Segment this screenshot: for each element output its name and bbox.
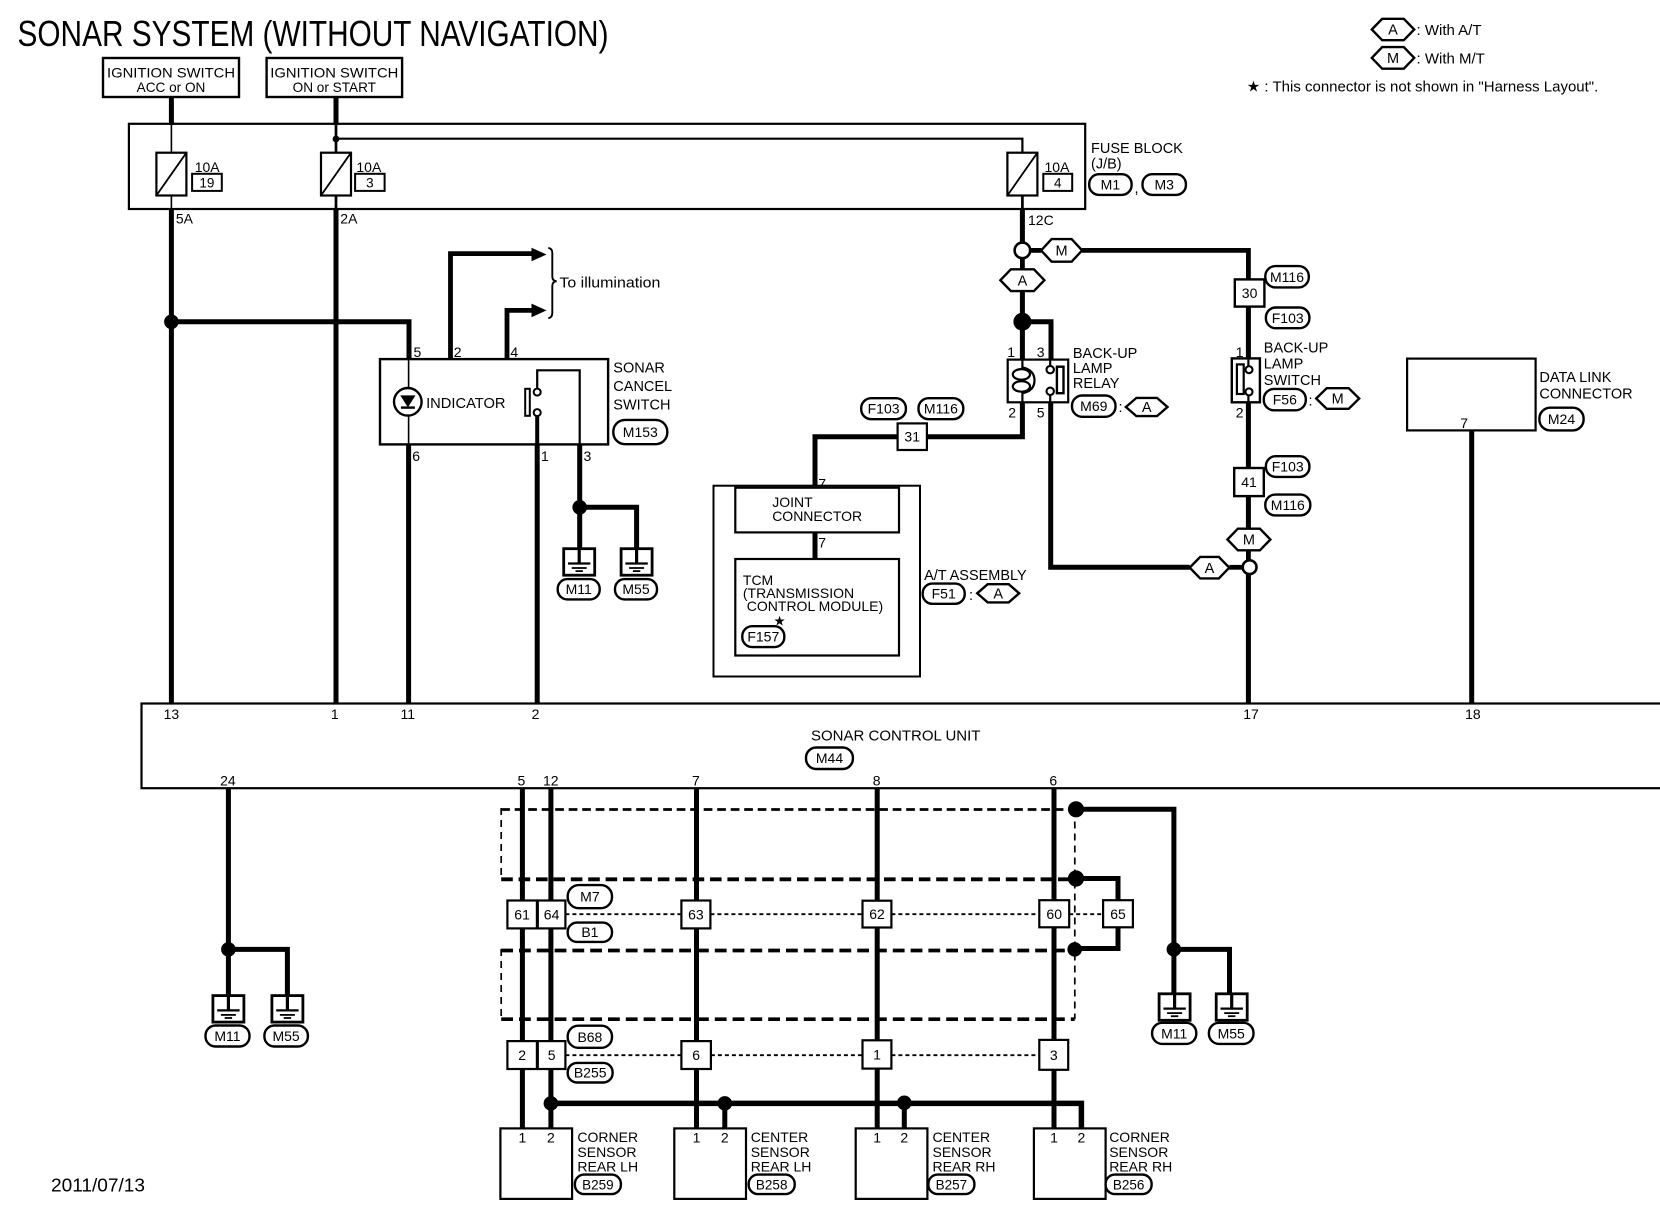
cancel switch contact upper circle [534, 389, 541, 396]
ground connector M55 (bottom right) [1209, 1023, 1254, 1044]
relay contact lower circle [1047, 388, 1054, 395]
connector M3 [1143, 174, 1186, 195]
svg-text:DATA LINK: DATA LINK [1539, 370, 1611, 386]
back-up lamp switch name [1264, 341, 1328, 390]
connector M69 [1072, 396, 1116, 417]
svg-text:A: A [993, 587, 1003, 603]
svg-text:SENSOR: SENSOR [933, 1144, 992, 1160]
wire fuse3 lower lead [1021, 196, 1024, 210]
fuse block name label [1091, 141, 1183, 173]
svg-text:6: 6 [412, 448, 420, 464]
corner sensor rear LH name [577, 1129, 638, 1174]
svg-text:3: 3 [1050, 1047, 1058, 1063]
fuse1 number box 19 [192, 174, 222, 191]
joint connector box [735, 488, 899, 533]
svg-text:5A: 5A [176, 211, 194, 227]
svg-text:SONAR CONTROL UNIT: SONAR CONTROL UNIT [811, 728, 980, 745]
tag M on back-up lamp column [1227, 529, 1270, 551]
svg-text:12: 12 [543, 773, 559, 789]
shield box2 top dashed line [501, 949, 1074, 953]
svg-text:FUSE BLOCK: FUSE BLOCK [1091, 141, 1183, 157]
junction on 5A feed [164, 315, 179, 330]
connector B1 [568, 923, 612, 942]
svg-text:10A: 10A [356, 159, 382, 175]
pair link 5-6 [565, 1054, 681, 1056]
svg-text:A: A [1018, 273, 1028, 289]
back-up lamp switch box F56 [1232, 358, 1260, 402]
svg-text:M: M [1243, 533, 1255, 549]
svg-text:CONNECTOR: CONNECTOR [1539, 387, 1632, 403]
svg-text:A: A [1205, 561, 1215, 577]
connector M116 (near 31) [919, 398, 964, 419]
svg-text:2: 2 [518, 1047, 526, 1063]
svg-text:7: 7 [692, 773, 700, 789]
shield box1 bottom dashed line [501, 877, 1076, 881]
svg-text:5: 5 [1037, 405, 1045, 421]
wire 41 to M hexagon [1246, 496, 1251, 529]
wire sensor ground bus [551, 1103, 1082, 1128]
svg-text:B255: B255 [574, 1065, 607, 1081]
svg-text:M44: M44 [816, 750, 843, 766]
corner sensor rear LH box B259 [500, 1128, 572, 1199]
back-up lamp switch internal upper lead [1247, 358, 1249, 366]
wire bus drop center sensor LH pin2 [722, 1103, 727, 1128]
svg-text:M3: M3 [1154, 177, 1174, 193]
connector F56 [1264, 389, 1306, 410]
ground connector M11 (bottom left) [206, 1026, 250, 1047]
svg-text:B256: B256 [1113, 1177, 1145, 1192]
svg-text:(J/B): (J/B) [1091, 157, 1122, 173]
fuse 10A #3 [321, 153, 351, 196]
connector box 62 [863, 901, 892, 928]
brace to illumination [548, 248, 556, 318]
wire shield top to ground branch [1076, 809, 1174, 994]
fuse 10A #4 [1007, 153, 1037, 196]
svg-text:CORNER: CORNER [1109, 1129, 1170, 1145]
svg-text:SENSOR: SENSOR [577, 1144, 636, 1160]
fuse block (J/B) outline [129, 124, 1085, 209]
svg-text::: : [969, 588, 973, 604]
ignition switch ON or START box [267, 58, 403, 97]
svg-text:★ : This connector is not show: ★ : This connector is not shown in "Harn… [1247, 79, 1599, 96]
back-up lamp switch internal lower lead [1247, 396, 1249, 403]
connector M116 (above 30) [1265, 266, 1309, 287]
corner sensor rear RH name [1109, 1129, 1172, 1174]
connector box 2 [507, 1041, 537, 1069]
wire A hexagon to relay pin1 [1020, 291, 1025, 360]
relay contact lower lead [1049, 395, 1051, 402]
tag A (with A/T) on 12C [1000, 269, 1044, 291]
connector box 6 [681, 1041, 711, 1069]
ground M55 (mid) [621, 549, 652, 576]
ground M55 (bottom right) [1216, 994, 1247, 1021]
back-up lamp relay name [1073, 346, 1137, 392]
relay coil lead internal [1021, 360, 1023, 368]
svg-text:A/T ASSEMBLY: A/T ASSEMBLY [924, 568, 1027, 584]
legend symbol M (With M/T) [1372, 47, 1414, 69]
wire branch to M55 ground (bottom right) [1174, 949, 1230, 993]
svg-text:B259: B259 [582, 1177, 614, 1192]
svg-text:M: M [1056, 244, 1068, 260]
ground connector M11 (mid) [558, 579, 600, 599]
svg-text:M24: M24 [1548, 411, 1575, 427]
svg-text:M11: M11 [1161, 1025, 1187, 1041]
svg-text::: : [1119, 400, 1123, 416]
svg-text:10A: 10A [1045, 159, 1071, 175]
relay coil loop lower [1013, 381, 1030, 392]
svg-text:3: 3 [1037, 344, 1045, 360]
shield junction dot bottom [1067, 942, 1082, 957]
svg-text:13: 13 [164, 706, 180, 722]
wire branch to relay pin3 [1022, 322, 1051, 360]
center sensor rear LH box B258 [674, 1128, 746, 1199]
wire 5A feed to sonar control unit pin13 [169, 209, 174, 704]
svg-text:M: M [1387, 51, 1399, 67]
svg-text:19: 19 [199, 175, 214, 190]
svg-text:SENSOR: SENSOR [1109, 1144, 1168, 1160]
wire relay pin5 to A/T assembly [1051, 402, 1190, 567]
svg-text:4: 4 [1054, 175, 1062, 190]
svg-text:1: 1 [541, 448, 549, 464]
svg-text:CENTER: CENTER [751, 1129, 809, 1145]
tag A for relay [1126, 398, 1168, 416]
svg-text:M55: M55 [622, 581, 649, 597]
shield box2 bottom dashed line [501, 1017, 1074, 1021]
svg-text:F56: F56 [1273, 392, 1297, 408]
shield junction dot middle [1068, 870, 1084, 886]
junction fuse2 feed [333, 136, 340, 143]
connector box 3 [1039, 1040, 1068, 1070]
wire fuse1 lower lead [170, 196, 172, 210]
ground M11 (mid) [564, 549, 595, 576]
connector M153 [613, 420, 667, 444]
svg-text:B68: B68 [577, 1029, 602, 1045]
ground M55 (bottom left) [272, 996, 303, 1023]
wire 31 to joint connector [815, 437, 898, 486]
svg-text:M55: M55 [1218, 1025, 1245, 1041]
wire relay pin2 down [927, 402, 1023, 436]
junction relay coil/contact feed [1013, 313, 1031, 331]
svg-text:61: 61 [514, 907, 530, 923]
back-up lamp switch upper circle [1246, 366, 1253, 373]
svg-text:CANCEL: CANCEL [613, 379, 672, 395]
pair link 63-62 [710, 913, 862, 915]
fuse2 number box 3 [355, 174, 385, 191]
svg-text:: With M/T: : With M/T [1417, 50, 1485, 67]
svg-text:1: 1 [1050, 1130, 1058, 1146]
sonar control unit box M44 [142, 704, 1660, 789]
wire branch to cancel switch pin5 [171, 322, 409, 359]
wire indicator lead lower [408, 415, 410, 444]
svg-text:ON or START: ON or START [293, 80, 376, 95]
svg-text:41: 41 [1241, 474, 1257, 490]
wire 12C down to junction circle [1020, 209, 1025, 243]
svg-text:1: 1 [519, 1130, 527, 1146]
svg-text:5: 5 [518, 773, 526, 789]
svg-text:To illumination: To illumination [559, 274, 660, 291]
connector box 60 [1039, 900, 1069, 927]
svg-text:7: 7 [818, 535, 826, 551]
connector B68 [568, 1026, 612, 1048]
svg-text:65: 65 [1110, 906, 1126, 922]
A/T assembly outer box [714, 486, 921, 677]
svg-text:62: 62 [869, 906, 885, 922]
shield junction dot top [1068, 801, 1084, 817]
TCM name [743, 572, 883, 614]
wire fuse1 upper lead [170, 124, 172, 153]
wire indicator lead upper [408, 359, 410, 389]
svg-text:M69: M69 [1080, 398, 1107, 414]
node back-up/A-T junction circle [1243, 560, 1257, 574]
wire control unit pin12 down [548, 788, 553, 1128]
data link connector box M24 [1407, 359, 1536, 431]
tag A on A/T assembly line [1190, 557, 1230, 579]
svg-text:63: 63 [688, 907, 704, 923]
svg-text:M11: M11 [214, 1028, 240, 1044]
svg-text:2: 2 [1078, 1130, 1086, 1146]
corner sensor rear RH box B256 [1034, 1128, 1106, 1199]
connector box 61 [507, 901, 537, 929]
arrowhead lower to illumination [532, 304, 547, 318]
wire contact upper to pin3 internal [537, 370, 580, 444]
connector B256 [1106, 1175, 1152, 1195]
wire shield middle to connector 65 [1076, 879, 1118, 901]
wire ignition ACC to fuse block [169, 97, 174, 125]
TCM box [735, 559, 899, 656]
back-up lamp switch bar [1237, 364, 1244, 394]
wire control unit pin24 down [226, 788, 231, 995]
svg-text:CONNECTOR: CONNECTOR [772, 508, 862, 524]
sonar cancel switch name [613, 361, 672, 414]
svg-text:2: 2 [1008, 405, 1016, 421]
connector F103 (below 30) [1266, 308, 1310, 329]
ground connector M55 (bottom left) [264, 1026, 308, 1047]
svg-text:B258: B258 [756, 1177, 788, 1192]
tag M for back-up lamp switch [1316, 388, 1359, 409]
connector box 31 [898, 423, 927, 450]
wire M branch to back-up lamp switch column [1082, 250, 1248, 279]
svg-text:1: 1 [331, 706, 339, 722]
svg-text:,: , [1135, 181, 1139, 197]
svg-text:SWITCH: SWITCH [613, 398, 670, 414]
center sensor rear RH box B257 [856, 1128, 928, 1199]
svg-text:30: 30 [1242, 285, 1258, 301]
shield box1 top dashed line [501, 808, 1076, 811]
wire cancel switch pin2 to illumination [451, 254, 534, 360]
svg-text:7: 7 [1460, 415, 1468, 431]
svg-text:M116: M116 [1271, 497, 1305, 513]
wire connector 65 to shield bottom [1075, 927, 1118, 948]
pair link 60-65 [1069, 913, 1103, 915]
wire control unit pin7 to center sensor LH pin1 [694, 788, 699, 1128]
relay coil arc [1022, 368, 1034, 394]
svg-text:31: 31 [904, 429, 920, 445]
relay contact upper circle [1047, 366, 1054, 373]
svg-text:10A: 10A [195, 159, 221, 175]
svg-text:ACC or ON: ACC or ON [137, 80, 206, 95]
back-up lamp relay box M69 [1008, 360, 1068, 403]
svg-text:RELAY: RELAY [1073, 376, 1120, 392]
indicator LED triangle [400, 395, 415, 407]
wire cancel switch pin1 to control unit pin2 [535, 444, 540, 703]
svg-text:12C: 12C [1028, 212, 1054, 228]
svg-text:7: 7 [818, 476, 826, 492]
relay coil lead lower internal [1021, 392, 1023, 403]
connector F103 (above 41) [1266, 456, 1310, 477]
pair link 64-63 [565, 913, 681, 915]
wire contact lower to pin1 internal [535, 416, 539, 444]
svg-text:IGNITION SWITCH: IGNITION SWITCH [107, 66, 235, 81]
indicator LED circle [394, 388, 422, 416]
svg-text:F103: F103 [868, 401, 900, 417]
wire control unit pin5 to corner sensor LH pin1 [520, 788, 525, 1128]
wire control unit pin8 to center sensor RH pin1 [875, 788, 880, 1128]
svg-text:M: M [1332, 392, 1344, 408]
svg-text:24: 24 [220, 773, 236, 789]
sonar cancel switch box M153 [380, 359, 608, 444]
svg-text:F103: F103 [1272, 459, 1304, 475]
center sensor rear LH name [751, 1129, 812, 1174]
ground M11 (bottom left) [213, 996, 244, 1023]
connector box 63 [681, 901, 710, 929]
svg-text:SENSOR: SENSOR [751, 1144, 810, 1160]
svg-text:2: 2 [454, 344, 462, 360]
wire back-up lamp switch pin2 to 41 [1246, 402, 1251, 468]
tag A for A/T assembly [977, 584, 1019, 602]
connector M7 [568, 885, 612, 908]
wire fuse2 upper lead [335, 124, 338, 153]
fuse3 number box 4 [1043, 174, 1072, 191]
svg-text:2A: 2A [340, 211, 358, 227]
connector F157 [742, 626, 784, 647]
svg-text:2: 2 [900, 1130, 908, 1146]
junction bus to center sensor LH pin2 [718, 1096, 733, 1111]
connector box 1 [863, 1040, 892, 1068]
tag M (with M/T) on 12C [1041, 239, 1082, 262]
svg-text:3: 3 [366, 175, 374, 190]
svg-text:A: A [1388, 23, 1398, 39]
ground connector M11 (bottom right) [1152, 1023, 1196, 1044]
wire fuse2 lower lead [335, 196, 338, 210]
pair link 6-1 [711, 1054, 863, 1056]
svg-text:M1: M1 [1101, 177, 1121, 193]
connector F103 (near 31) [861, 398, 906, 419]
connector box 41 [1234, 468, 1264, 496]
wire circle to A hexagon [1020, 258, 1025, 269]
svg-text:REAR RH: REAR RH [933, 1158, 996, 1174]
wire control unit pin6 to corner sensor RH pin1 [1052, 788, 1057, 1128]
fuse 10A #19 [156, 153, 186, 196]
ignition switch ACC or ON box [103, 58, 239, 97]
svg-text:M7: M7 [580, 889, 600, 905]
svg-text:M116: M116 [924, 401, 958, 417]
wire bus drop center sensor RH pin2 [902, 1103, 907, 1128]
svg-text:LAMP: LAMP [1073, 361, 1113, 377]
svg-text:1: 1 [873, 1047, 881, 1063]
svg-text:5: 5 [548, 1047, 556, 1063]
svg-text:A: A [1142, 400, 1152, 416]
ground M11 (bottom right) [1159, 994, 1190, 1021]
connector M116 (below 41) [1265, 495, 1310, 516]
wire branch to M55 ground (mid) [580, 507, 637, 548]
svg-text:M11: M11 [566, 581, 592, 597]
connector box 30 [1235, 279, 1265, 306]
ground connector M55 (mid) [615, 579, 657, 599]
wire cancel switch pin4 to illumination [507, 310, 533, 359]
shield right dashed edge [1074, 810, 1076, 1020]
svg-text:SWITCH: SWITCH [1264, 373, 1321, 389]
junction pin24 ground split [221, 942, 236, 957]
back-up lamp switch lower circle [1246, 388, 1253, 395]
wire cancel switch pin6 to control unit pin11 [406, 444, 411, 703]
svg-text:M116: M116 [1270, 269, 1304, 285]
svg-text:60: 60 [1046, 906, 1062, 922]
svg-text:LAMP: LAMP [1264, 357, 1304, 373]
svg-text:B257: B257 [936, 1177, 968, 1192]
connector B259 [575, 1175, 621, 1195]
wire data link connector pin7 to control unit pin18 [1469, 430, 1474, 703]
shield box1 left dashed edge [500, 808, 502, 879]
relay coil loop upper [1013, 369, 1030, 380]
svg-text:M153: M153 [623, 424, 658, 440]
svg-text:F157: F157 [747, 629, 779, 645]
connector box 64 [538, 901, 566, 929]
arrowhead upper to illumination [532, 248, 547, 262]
svg-text:BACK-UP: BACK-UP [1264, 341, 1328, 357]
svg-text:11: 11 [401, 706, 416, 722]
svg-text:1: 1 [693, 1130, 701, 1146]
junction bus to center sensor RH pin2 [897, 1096, 912, 1111]
shield box2 left dashed edge [500, 949, 502, 1019]
node 12C split circle [1015, 243, 1031, 259]
svg-text:CONTROL MODULE): CONTROL MODULE) [743, 598, 883, 614]
svg-text:F103: F103 [1272, 310, 1304, 326]
svg-text:REAR RH: REAR RH [1109, 1158, 1172, 1174]
svg-text:18: 18 [1465, 706, 1481, 722]
relay contact bar [1057, 367, 1064, 394]
svg-text:64: 64 [544, 907, 560, 923]
wire junction circle to control unit pin17 [1246, 574, 1251, 703]
connector F51 [923, 584, 965, 604]
svg-text:6: 6 [692, 1047, 700, 1063]
svg-text:2011/07/13: 2011/07/13 [51, 1176, 145, 1196]
svg-text:F51: F51 [932, 586, 956, 602]
connector B255 [568, 1063, 613, 1083]
svg-text:M55: M55 [272, 1028, 299, 1044]
svg-text:SONAR: SONAR [613, 361, 665, 377]
joint connector name [772, 494, 862, 524]
wire A hexagon to junction circle [1229, 565, 1242, 570]
relay contact upper lead [1049, 360, 1051, 366]
svg-text:B1: B1 [581, 924, 598, 940]
pair link 1-3 [891, 1054, 1039, 1056]
wire ignition ON/START to fuse block [334, 97, 339, 125]
svg-text:1: 1 [873, 1130, 881, 1146]
connector box 5 [538, 1041, 566, 1069]
svg-text:6: 6 [1049, 773, 1057, 789]
svg-text:INDICATOR: INDICATOR [426, 396, 505, 412]
connector B258 [749, 1175, 795, 1195]
connector box 65 [1103, 900, 1133, 927]
wire joint connector to TCM [813, 532, 818, 559]
wire circle to M hexagon [1030, 248, 1041, 253]
svg-text:2: 2 [532, 706, 540, 722]
wire 30 to back-up lamp switch pin1 [1246, 307, 1251, 359]
junction ground split (bottom right) [1167, 942, 1182, 957]
svg-text:5: 5 [414, 344, 422, 360]
svg-text:CORNER: CORNER [577, 1129, 638, 1145]
svg-text::: : [1309, 394, 1313, 410]
